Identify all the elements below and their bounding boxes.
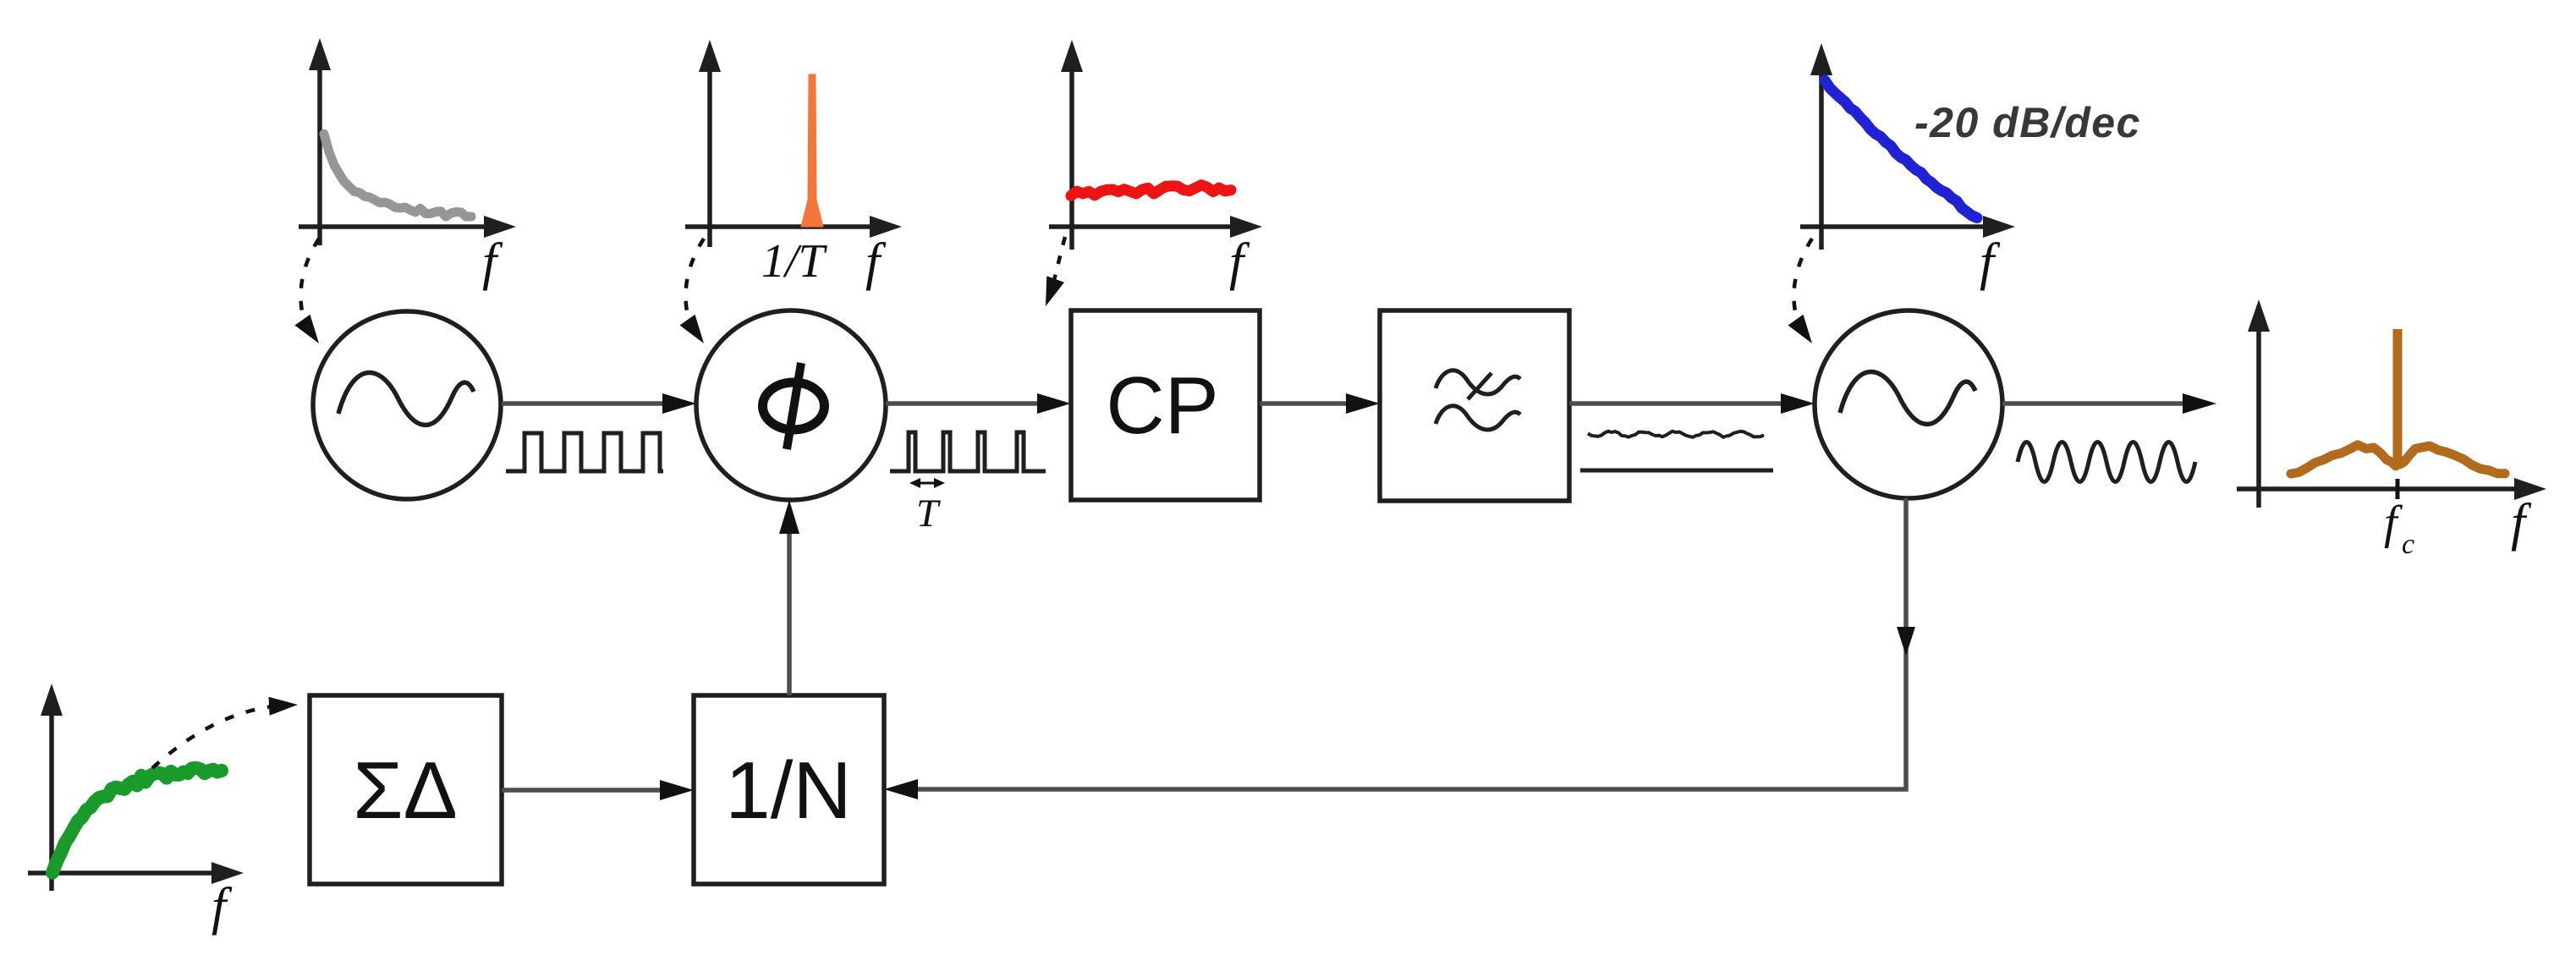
blue -20 dB/dec noise curve <box>1825 80 1977 218</box>
wire divider to phase detector <box>779 500 799 695</box>
red flat noise band <box>1071 185 1231 196</box>
output spectral plot axes <box>2256 328 2261 508</box>
sigma-delta modulator box <box>310 695 502 884</box>
svg-text:f: f <box>482 233 503 291</box>
wire oscillator to phase detector <box>502 393 696 414</box>
period T double arrow <box>909 478 945 488</box>
output sine-wave symbol <box>2018 442 2195 482</box>
sigma-delta spectral plot axes <box>49 712 54 891</box>
PFD spectral plot axes <box>707 69 712 247</box>
reference spectral plot axes (top-left) <box>317 67 322 245</box>
frequency divider box 1/N <box>694 695 884 884</box>
svg-text:ΣΔ: ΣΔ <box>353 745 457 836</box>
charge pump box CP <box>1071 310 1260 500</box>
fc tick on output plot <box>2396 479 2400 499</box>
PFD pulse-train symbol <box>890 432 1046 471</box>
svg-text:f: f <box>2384 497 2403 549</box>
svg-text:-20 dB/dec: -20 dB/dec <box>1914 99 2141 146</box>
orange reference spur at 1/T <box>801 74 823 227</box>
svg-text:f: f <box>1980 233 2001 291</box>
svg-text:f: f <box>1229 233 1250 291</box>
svg-text:f: f <box>211 878 233 936</box>
output spectrum carrier spike (brown) <box>2393 329 2403 464</box>
reference phase-noise curve (gray) <box>324 134 471 217</box>
dashed arrow from reference plot to oscillator <box>295 239 320 343</box>
svg-text:f: f <box>2511 494 2532 552</box>
VCO spectral plot axes <box>1819 72 1824 250</box>
dashed arrow from PFD plot to phase detector <box>680 239 705 343</box>
output spectrum left skirt (brown) <box>2291 445 2396 474</box>
CP spectral plot axes <box>1069 69 1074 250</box>
dashed arrow from CP plot to charge pump <box>1046 237 1065 306</box>
wire phase detector to charge pump <box>886 393 1071 414</box>
feedback wire from VCO down and left to divider <box>884 498 1915 799</box>
phase detector circle <box>696 310 886 500</box>
reference square-wave symbol <box>506 433 663 471</box>
wire loop filter to VCO <box>1569 393 1815 414</box>
svg-text:1/N: 1/N <box>725 745 851 836</box>
svg-text:T: T <box>916 491 941 535</box>
control voltage DC line symbol <box>1580 469 1773 473</box>
VCO output wire <box>2002 393 2216 414</box>
svg-text:c: c <box>2402 529 2414 560</box>
svg-text:f: f <box>865 233 887 291</box>
dashed arrow from VCO plot to VCO <box>1788 239 1813 343</box>
svg-text:1/T: 1/T <box>761 235 828 288</box>
wire sigma-delta to divider <box>502 780 694 800</box>
output spectrum right skirt (brown) <box>2400 446 2505 474</box>
reference oscillator circle <box>313 311 501 499</box>
VCO circle <box>1815 310 2002 498</box>
loop filter box <box>1380 310 1569 501</box>
green noise-shaping curve <box>52 768 222 873</box>
control voltage ripple symbol <box>1588 431 1764 437</box>
wire charge pump to loop filter <box>1260 393 1380 414</box>
dashed arrow from sigma-delta plot to SD modulator <box>152 697 298 768</box>
svg-text:CP: CP <box>1106 360 1218 451</box>
